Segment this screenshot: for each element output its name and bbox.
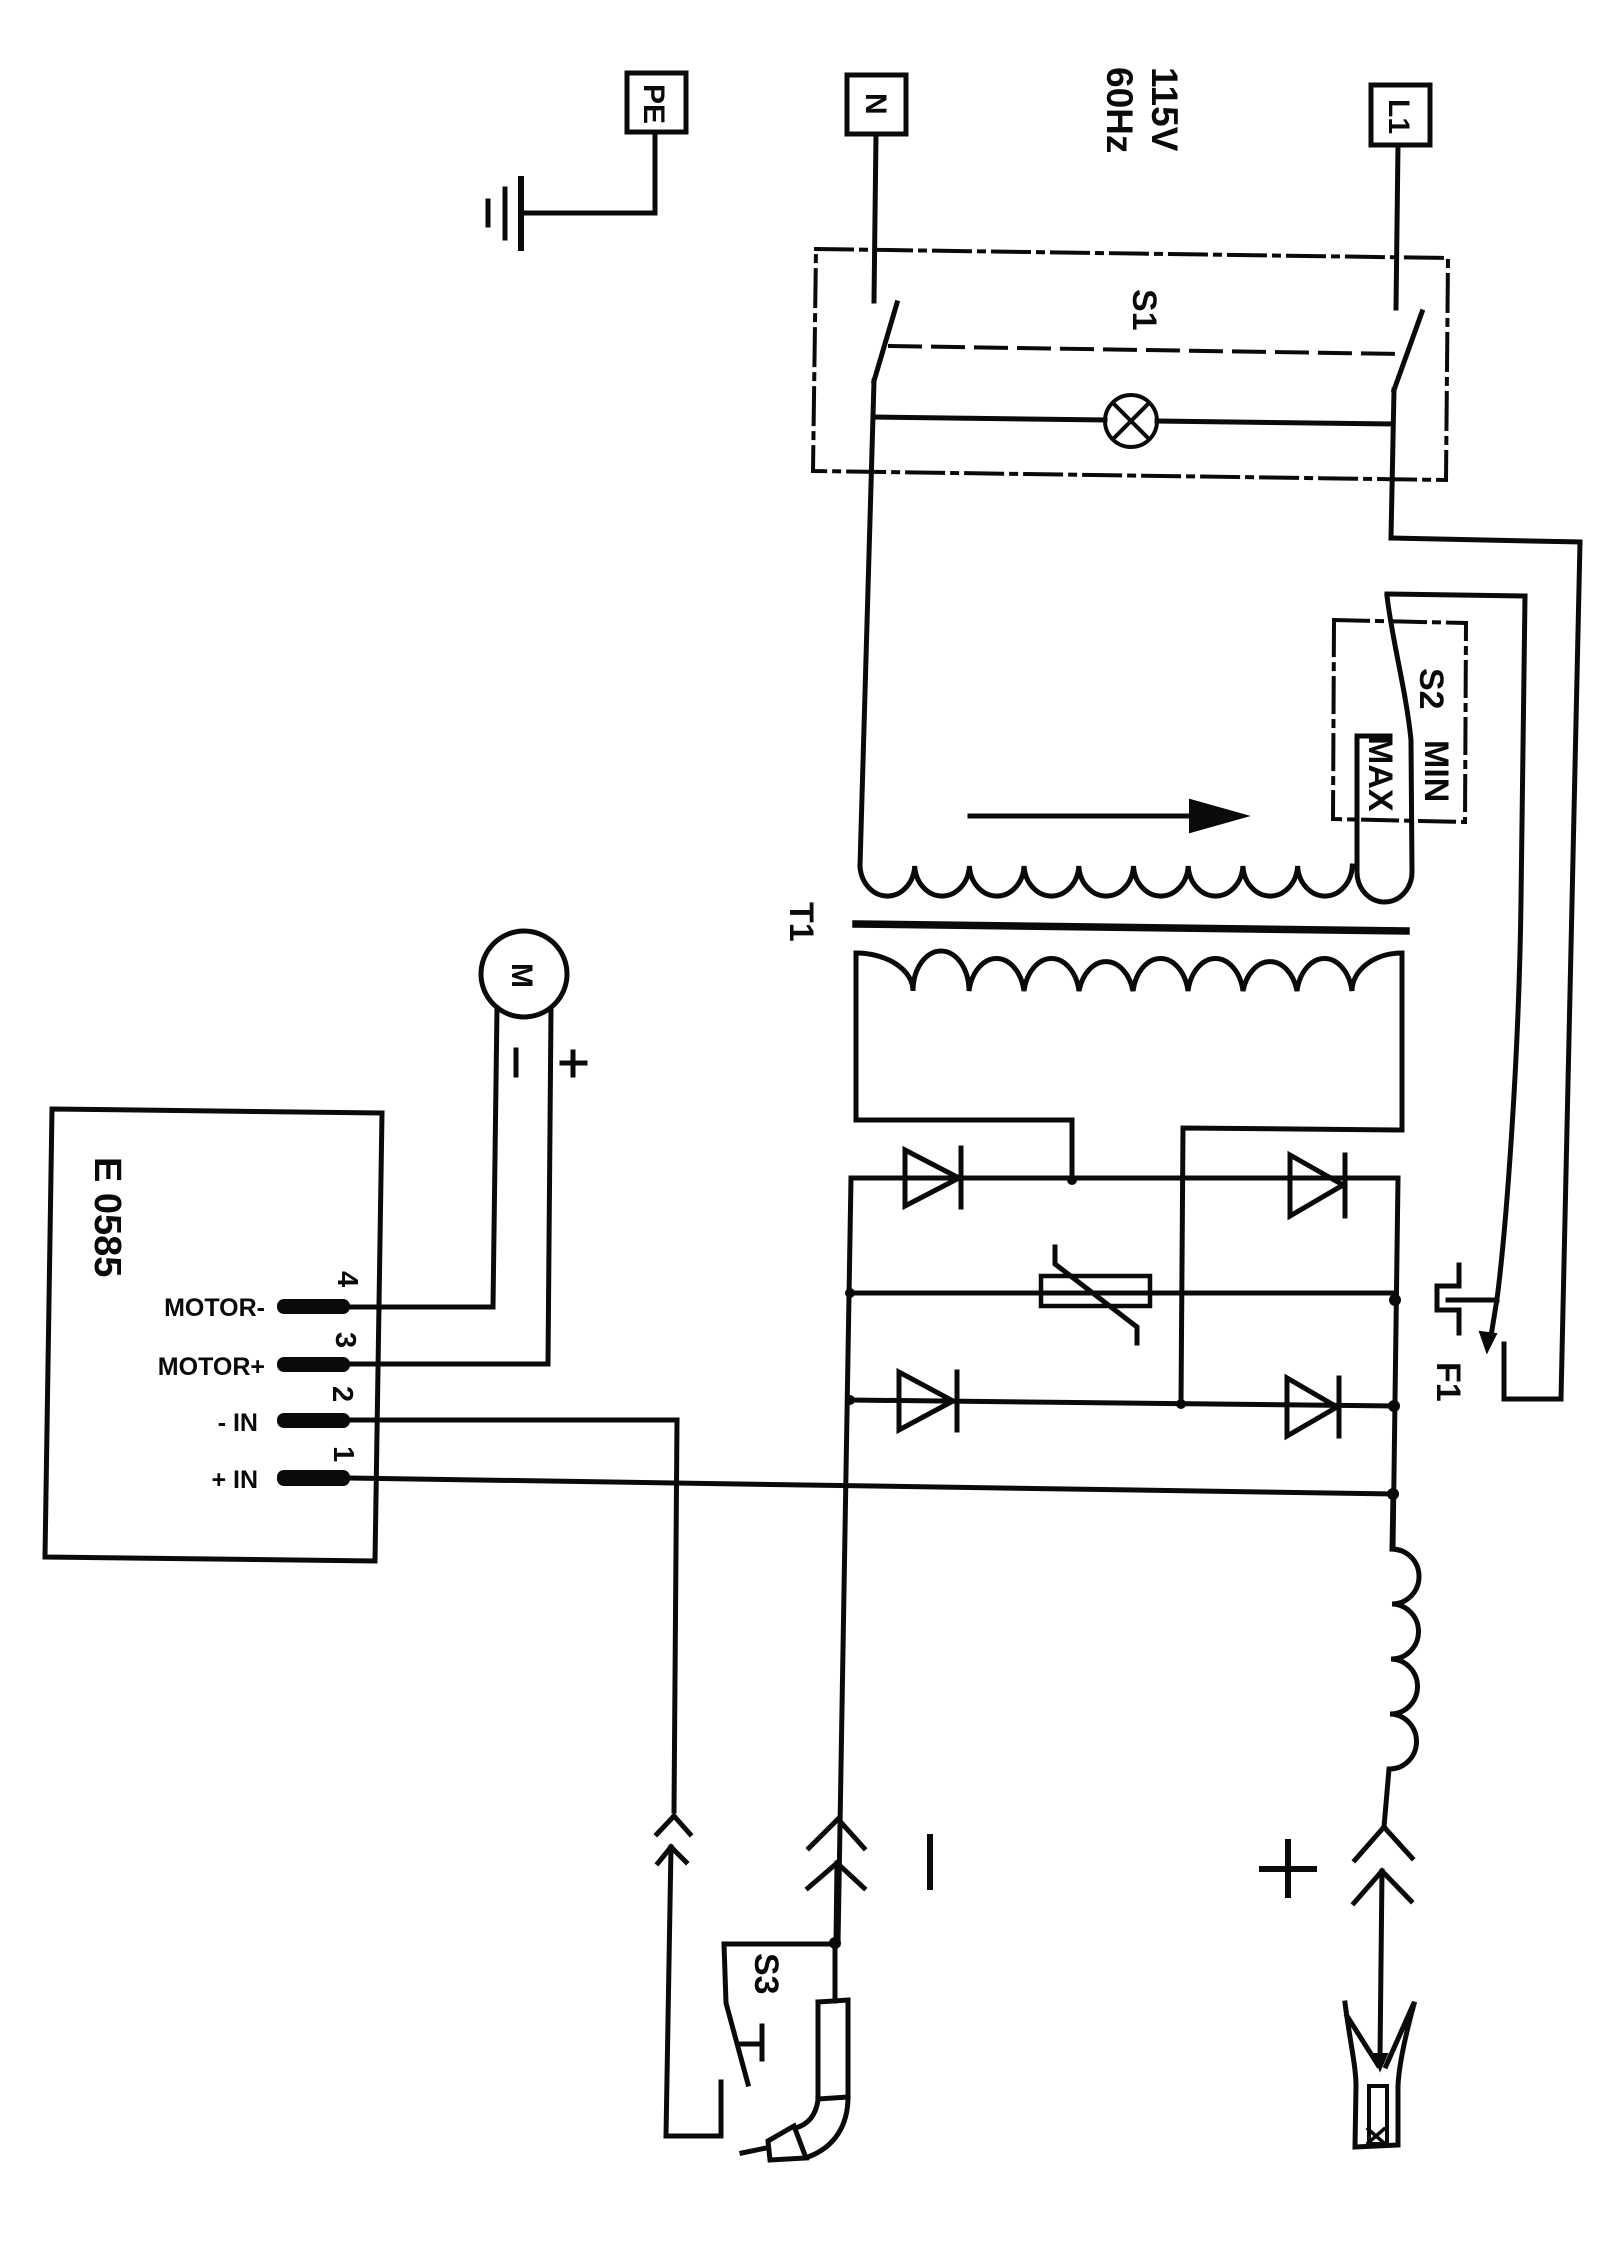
svg-text:4: 4	[331, 1271, 363, 1287]
svg-text:L1: L1	[1382, 99, 1415, 134]
svg-text:MOTOR+: MOTOR+	[158, 1353, 265, 1381]
svg-text:MOTOR-: MOTOR-	[164, 1294, 265, 1322]
svg-text:E 0585: E 0585	[86, 1157, 128, 1277]
svg-text:115V: 115V	[1144, 67, 1185, 152]
svg-text:MIN: MIN	[1417, 740, 1455, 802]
svg-text:60Hz: 60Hz	[1099, 67, 1140, 153]
svg-text:3: 3	[329, 1332, 361, 1348]
svg-text:+ IN: + IN	[211, 1466, 258, 1494]
svg-text:S2: S2	[1412, 668, 1450, 710]
svg-text:- IN: - IN	[218, 1409, 258, 1437]
svg-text:S1: S1	[1125, 289, 1163, 331]
svg-text:2: 2	[326, 1386, 358, 1402]
svg-text:MAX: MAX	[1361, 736, 1399, 812]
svg-text:F1: F1	[1429, 1362, 1467, 1402]
svg-text:1: 1	[327, 1446, 359, 1462]
svg-text:PE: PE	[637, 84, 670, 124]
svg-text:M: M	[505, 963, 538, 988]
svg-text:T1: T1	[782, 902, 820, 942]
svg-text:S3: S3	[747, 1953, 785, 1995]
svg-text:N: N	[859, 93, 892, 115]
